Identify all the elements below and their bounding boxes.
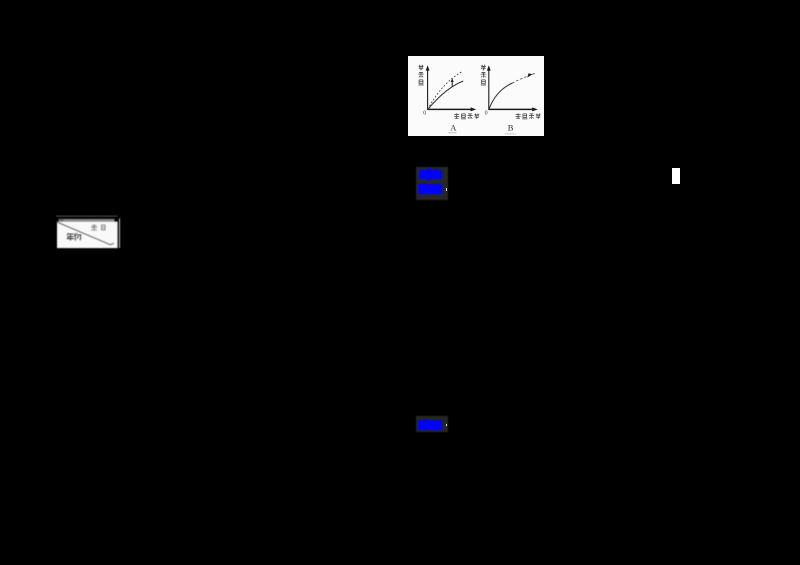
svg-text:A: A [450, 123, 457, 133]
blue highlight bar 1 [419, 170, 442, 179]
graph B label underline [505, 133, 516, 134]
blue highlight bar 2 [418, 184, 442, 194]
chart panel (white figure with graphs A and B) [408, 56, 544, 136]
table diagonal line [57, 222, 114, 245]
graph A x-axis arrowhead [471, 107, 477, 111]
graph B y-axis arrowhead [487, 65, 491, 70]
graph A solid curve [428, 81, 463, 109]
svg-text:0: 0 [485, 111, 488, 117]
graph B solid curve [489, 83, 513, 109]
graph A label underline [448, 132, 456, 133]
white figure background [408, 56, 544, 136]
graph B dashed continuation curve [512, 73, 535, 83]
white cursor block [672, 168, 680, 184]
graph A x-axis [427, 108, 473, 110]
blue highlight bar 3 [418, 420, 442, 430]
graph A dashed curve [428, 71, 463, 109]
graph B x-axis [488, 108, 534, 110]
table text 年份 [67, 233, 82, 241]
table gray header strip [59, 219, 115, 222]
graph B x-axis arrowhead [532, 107, 538, 111]
highlighted answer block 1 (dark gray backing) [416, 167, 448, 200]
blue bar 2 bump [423, 183, 426, 185]
table top border line [56, 215, 118, 217]
graph A y-axis [427, 69, 429, 110]
svg-text:B: B [508, 123, 514, 133]
graph A x label 要素投入 [454, 113, 459, 119]
graph A small up arrow between curves [451, 81, 453, 87]
graph A y label 总产出 [418, 65, 423, 71]
blue bar 1 glyph bumps [421, 169, 424, 171]
graph A y-axis arrowhead [426, 65, 430, 70]
blue bar 1 descender [427, 179, 430, 181]
white tick right of block 1 [446, 188, 447, 191]
svg-text:0: 0 [423, 111, 426, 117]
graph B y label 总产出 [481, 65, 486, 71]
table white cell [57, 222, 118, 249]
white tick right of block 2 [446, 424, 447, 427]
table right thin line [119, 219, 120, 249]
blue bar 3 bump [425, 419, 429, 421]
highlighted answer block 2 (dark gray backing) [416, 416, 448, 432]
table header cell with diagonal [54, 213, 124, 253]
graph B arrowhead on dashed curve [527, 73, 532, 77]
graph B x label 要素投入 [516, 113, 521, 119]
graph B y-axis [488, 69, 490, 110]
table text 项目 [91, 225, 105, 231]
